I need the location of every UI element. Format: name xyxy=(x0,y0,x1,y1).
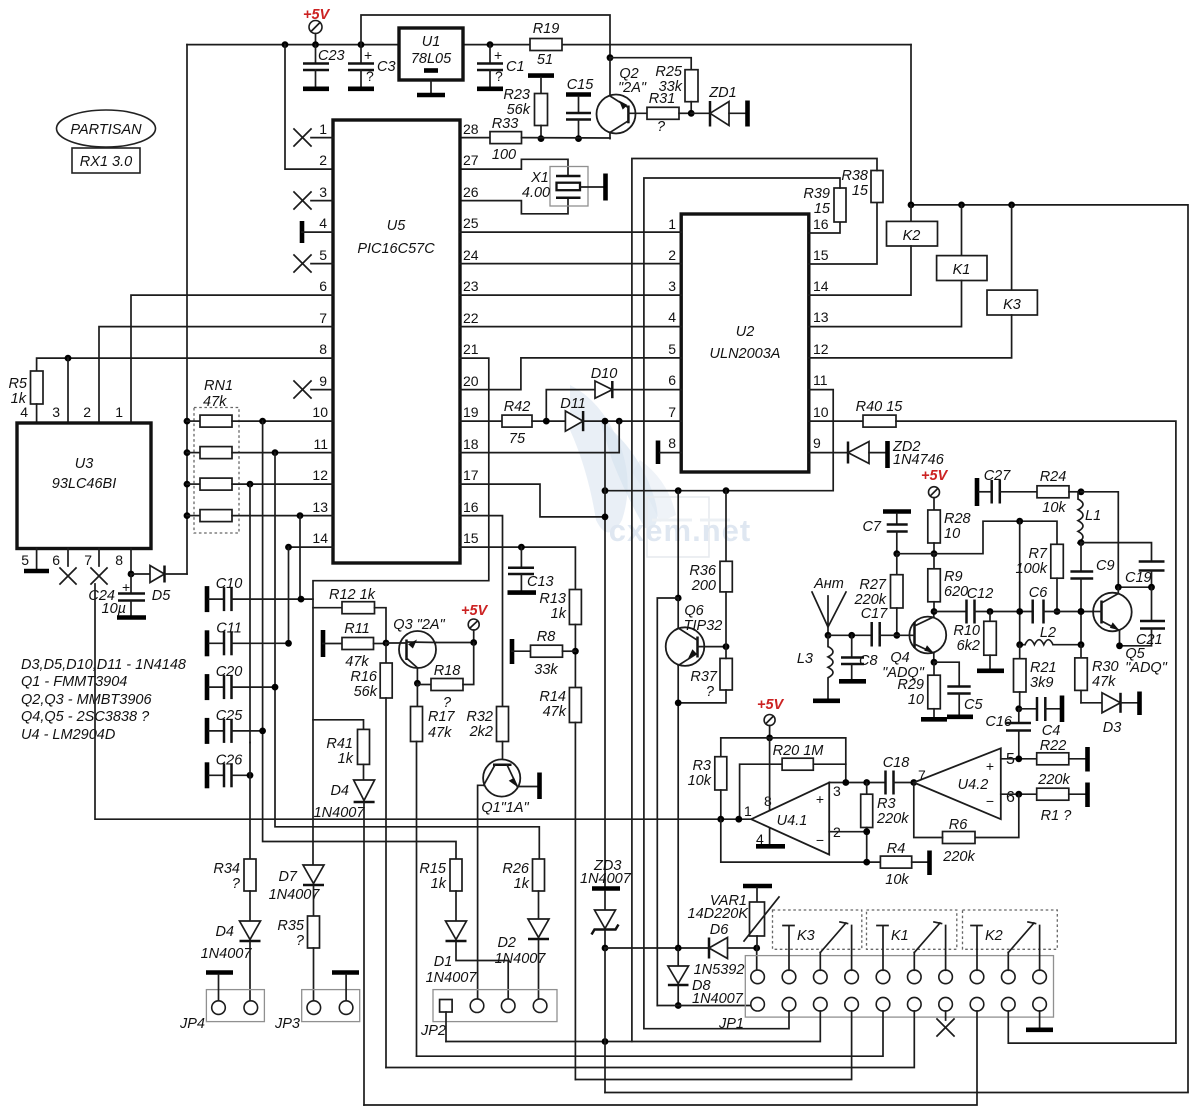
diode D7 xyxy=(303,865,324,884)
node dots on rail xyxy=(282,41,289,48)
connector JP1 xyxy=(745,956,1053,1018)
svg-text:C1: C1 xyxy=(506,59,525,75)
svg-text:9: 9 xyxy=(319,373,327,389)
zener ZD2 xyxy=(809,452,848,454)
svg-text:C8: C8 xyxy=(859,653,878,669)
svg-text:R40 15: R40 15 xyxy=(856,399,904,415)
svg-text:1k: 1k xyxy=(431,876,447,892)
svg-text:R42: R42 xyxy=(504,399,531,415)
svg-text:1k: 1k xyxy=(514,876,530,892)
svg-text:1: 1 xyxy=(668,216,676,232)
capacitor C23 xyxy=(315,45,317,63)
svg-text:?: ? xyxy=(366,68,374,84)
K switch dashed boxes xyxy=(773,910,862,949)
U5 unused pin X marks 1,3,5,9 xyxy=(294,129,333,398)
svg-text:L1: L1 xyxy=(1085,508,1101,524)
U5 right pin labels xyxy=(463,121,479,546)
svg-text:1k: 1k xyxy=(338,751,354,767)
PARTISAN logo xyxy=(57,110,156,147)
svg-text:10k: 10k xyxy=(1042,500,1066,516)
svg-text:D11: D11 xyxy=(560,396,586,412)
svg-text:+: + xyxy=(816,791,824,807)
svg-text:C25: C25 xyxy=(216,708,244,724)
Q5 xyxy=(1093,593,1132,632)
svg-text:R3: R3 xyxy=(877,796,896,812)
R9 xyxy=(933,554,935,569)
svg-text:Q4,Q5 - 2SC3838 ?: Q4,Q5 - 2SC3838 ? xyxy=(21,709,150,725)
svg-text:C18: C18 xyxy=(883,755,910,771)
svg-text:3: 3 xyxy=(668,278,676,294)
svg-text:6: 6 xyxy=(319,278,327,294)
svg-text:22: 22 xyxy=(463,310,479,326)
svg-text:−: − xyxy=(986,793,994,809)
svg-text:21: 21 xyxy=(463,341,479,357)
resistor R35 xyxy=(308,916,320,948)
svg-text:R1 ?: R1 ? xyxy=(1041,808,1073,824)
connector JP4 xyxy=(206,990,264,1022)
svg-text:51: 51 xyxy=(537,52,553,68)
R30 xyxy=(1080,645,1082,658)
svg-text:K3: K3 xyxy=(1003,297,1021,313)
svg-text:18: 18 xyxy=(463,436,479,452)
svg-text:7: 7 xyxy=(84,552,92,568)
svg-text:Q3 "2A": Q3 "2A" xyxy=(393,617,445,633)
microcontroller U5 PIC16C57C xyxy=(333,120,460,563)
svg-text:20: 20 xyxy=(463,373,479,389)
svg-text:5: 5 xyxy=(319,247,327,263)
svg-text:1: 1 xyxy=(319,121,327,137)
svg-text:R8: R8 xyxy=(537,629,556,645)
svg-text:7: 7 xyxy=(668,404,676,420)
svg-text:D3: D3 xyxy=(1103,720,1122,736)
C21 xyxy=(1151,587,1153,620)
svg-text:47k: 47k xyxy=(345,654,369,670)
C12 row xyxy=(934,611,967,613)
-in row / R3 220k xyxy=(829,831,867,833)
svg-text:R41: R41 xyxy=(326,736,353,752)
resistor R11 xyxy=(321,630,326,657)
connector JP3 xyxy=(302,990,360,1022)
svg-text:C27: C27 xyxy=(984,468,1012,484)
svg-text:R14: R14 xyxy=(539,689,566,705)
svg-text:R7: R7 xyxy=(1028,546,1047,562)
U5 pin4 terminal bar xyxy=(300,221,305,243)
C16 C4 node xyxy=(1018,709,1020,723)
resistor R17 xyxy=(416,683,418,706)
svg-text:28: 28 xyxy=(463,121,479,137)
svg-text:R31: R31 xyxy=(649,91,676,107)
diode D5 xyxy=(131,573,150,575)
svg-text:+5V: +5V xyxy=(461,603,489,619)
svg-text:4: 4 xyxy=(20,404,28,420)
resistor R14 xyxy=(569,688,581,723)
svg-text:R16: R16 xyxy=(350,669,378,685)
svg-text:R35: R35 xyxy=(277,918,305,934)
opamp U4.1 xyxy=(751,783,829,855)
svg-text:R39: R39 xyxy=(803,186,830,202)
svg-text:56k: 56k xyxy=(354,684,378,700)
resistor R8 xyxy=(510,639,515,664)
svg-text:JP4: JP4 xyxy=(179,1016,205,1032)
R29 xyxy=(933,662,935,675)
main +5V rail y44.6 xyxy=(187,44,911,46)
svg-text:12: 12 xyxy=(813,341,829,357)
svg-text:1N5392: 1N5392 xyxy=(694,962,745,978)
R40 to right frame xyxy=(809,420,863,422)
svg-text:C6: C6 xyxy=(1029,585,1048,601)
svg-text:1: 1 xyxy=(744,803,752,819)
U5 left pin labels xyxy=(312,121,328,546)
svg-text:24: 24 xyxy=(463,247,479,263)
svg-text:R20 1M: R20 1M xyxy=(773,743,825,759)
svg-text:4: 4 xyxy=(319,215,327,231)
capacitor C3 xyxy=(360,45,362,63)
svg-text:K1: K1 xyxy=(953,262,971,278)
svg-text:8: 8 xyxy=(319,341,327,357)
U5 pin8 wire / R5 xyxy=(37,358,333,371)
svg-text:6k2: 6k2 xyxy=(957,638,980,654)
svg-text:1N4007: 1N4007 xyxy=(269,887,321,903)
svg-text:D1: D1 xyxy=(434,954,453,970)
pin17 jog route xyxy=(460,484,605,517)
svg-text:R29: R29 xyxy=(897,677,924,693)
wire relay supply row xyxy=(911,205,1188,1092)
svg-text:1N4007: 1N4007 xyxy=(426,970,478,986)
svg-text:2: 2 xyxy=(83,404,91,420)
resistor R31 xyxy=(647,107,679,119)
svg-text:11: 11 xyxy=(313,436,328,452)
svg-text:L2: L2 xyxy=(1040,625,1056,641)
svg-text:C12: C12 xyxy=(967,586,994,602)
svg-text:5: 5 xyxy=(21,552,29,568)
svg-text:R34: R34 xyxy=(213,861,240,877)
svg-text:U1: U1 xyxy=(422,34,441,50)
svg-text:100k: 100k xyxy=(1016,561,1048,577)
R10 xyxy=(989,612,991,622)
svg-text:+: + xyxy=(494,47,502,63)
svg-text:Q1"1A": Q1"1A" xyxy=(481,800,529,816)
svg-text:13: 13 xyxy=(312,499,328,515)
diode D2 xyxy=(528,919,549,938)
svg-text:220k: 220k xyxy=(1037,772,1070,788)
svg-text:15: 15 xyxy=(814,201,831,217)
U2 pin8 terminal xyxy=(656,441,661,465)
svg-text:220k: 220k xyxy=(942,849,975,865)
svg-text:75: 75 xyxy=(509,431,526,447)
svg-text:2: 2 xyxy=(668,247,676,263)
svg-text:4: 4 xyxy=(668,309,676,325)
svg-text:1k: 1k xyxy=(551,606,567,622)
svg-text:D4: D4 xyxy=(330,783,349,799)
svg-text:14: 14 xyxy=(312,530,328,546)
Q6 emitter down xyxy=(677,666,679,949)
svg-text:33k: 33k xyxy=(534,662,558,678)
left frame vertical from rail xyxy=(186,45,188,574)
svg-text:TIP32: TIP32 xyxy=(684,618,723,634)
net row 948 xyxy=(605,947,757,949)
Q5 collector row xyxy=(1118,586,1151,588)
C8 xyxy=(828,634,872,636)
U2 pin11 wire to Q6/R36 net xyxy=(605,390,833,491)
svg-text:?: ? xyxy=(706,684,715,700)
svg-text:16: 16 xyxy=(813,216,829,232)
svg-text:10: 10 xyxy=(908,692,924,708)
svg-text:U4.2: U4.2 xyxy=(958,777,989,793)
svg-text:K2: K2 xyxy=(985,928,1003,944)
svg-text:R23: R23 xyxy=(503,87,530,103)
svg-text:JP2: JP2 xyxy=(420,1023,446,1039)
svg-text:R5: R5 xyxy=(8,376,27,392)
svg-text:10k: 10k xyxy=(688,773,712,789)
svg-text:U2: U2 xyxy=(736,324,755,340)
D8 xyxy=(677,948,679,966)
svg-text:10: 10 xyxy=(944,526,960,542)
svg-text:27: 27 xyxy=(463,152,479,168)
svg-text:C20: C20 xyxy=(216,664,243,680)
svg-text:C16: C16 xyxy=(985,714,1013,730)
svg-text:cxem.net: cxem.net xyxy=(609,513,751,548)
svg-text:100: 100 xyxy=(492,147,516,163)
R27 xyxy=(896,554,898,575)
relay coil K1 xyxy=(961,205,963,256)
svg-text:R22: R22 xyxy=(1040,738,1067,754)
y553.7 wire to R7 xyxy=(897,521,1057,554)
svg-text:R36: R36 xyxy=(689,563,717,579)
resistor R23 xyxy=(528,73,554,78)
D3 xyxy=(1081,702,1102,704)
K3 switch xyxy=(783,926,794,971)
resistor R33 pin28 wire xyxy=(460,137,490,139)
svg-text:C23: C23 xyxy=(318,48,345,64)
svg-text:?: ? xyxy=(232,876,241,892)
pin5 row R22 xyxy=(1001,758,1037,760)
svg-text:3k9: 3k9 xyxy=(1030,675,1053,691)
svg-text:15: 15 xyxy=(813,247,829,263)
U5 pin6 pin7 wires to U3 xyxy=(131,295,333,423)
ZD3 net vertical xyxy=(604,421,606,886)
wire to R25 xyxy=(610,58,691,70)
svg-text:10: 10 xyxy=(813,404,829,420)
svg-text:RX1 3.0: RX1 3.0 xyxy=(80,154,132,170)
capacitor C24 xyxy=(130,574,132,593)
svg-text:12: 12 xyxy=(312,467,328,483)
R37 xyxy=(720,658,732,690)
wires U5 pin25-22 to U2 pins1-4 xyxy=(460,231,681,233)
svg-text:3: 3 xyxy=(319,184,327,200)
transistor Q1 xyxy=(483,759,520,796)
svg-text:R19: R19 xyxy=(533,21,560,37)
svg-text:620: 620 xyxy=(944,584,968,600)
R4 row xyxy=(721,819,881,862)
svg-text:16: 16 xyxy=(463,499,479,515)
svg-text:R6: R6 xyxy=(949,817,968,833)
svg-text:ULN2003A: ULN2003A xyxy=(710,346,781,362)
svg-text:D10: D10 xyxy=(591,366,618,382)
EEPROM U3 93LC46BI xyxy=(17,423,151,549)
svg-text:D5: D5 xyxy=(152,588,171,604)
svg-text:R11: R11 xyxy=(344,621,370,637)
svg-text:3: 3 xyxy=(833,783,841,799)
bus verticals pins 10-14 to caps xyxy=(259,418,266,425)
wire rail to pin2 xyxy=(285,45,333,170)
svg-text:JP1: JP1 xyxy=(718,1016,744,1032)
watermark swoosh xyxy=(570,385,751,557)
svg-text:U5: U5 xyxy=(387,218,406,234)
svg-text:93LC46BI: 93LC46BI xyxy=(52,476,117,492)
svg-text:R24: R24 xyxy=(1040,469,1067,485)
svg-text:C19: C19 xyxy=(1125,570,1152,586)
svg-text:47k: 47k xyxy=(428,725,452,741)
resistor R15 xyxy=(450,859,462,891)
svg-text:220k: 220k xyxy=(876,811,909,827)
svg-text:?: ? xyxy=(657,119,666,135)
svg-text:1: 1 xyxy=(115,404,123,420)
wire Q1 collector to JP2 xyxy=(478,785,484,999)
svg-text:8: 8 xyxy=(115,552,123,568)
svg-text:11: 11 xyxy=(813,372,828,388)
resistor R38 xyxy=(809,203,877,265)
R6 feedback xyxy=(975,794,1019,837)
transistor Q3 xyxy=(399,631,436,668)
svg-text:+: + xyxy=(364,47,372,63)
svg-text:7: 7 xyxy=(319,310,327,326)
diode D10 to U2 pin6 xyxy=(546,390,595,422)
node dot Q2 feed xyxy=(607,54,614,61)
svg-text:47k: 47k xyxy=(203,394,227,410)
svg-text:R26: R26 xyxy=(502,861,530,877)
Q6 TIP32 block xyxy=(677,491,679,598)
svg-text:R18: R18 xyxy=(434,663,461,679)
svg-text:15: 15 xyxy=(463,530,479,546)
diode D4 xyxy=(354,780,375,801)
svg-text:R33: R33 xyxy=(492,116,519,132)
svg-text:26: 26 xyxy=(463,184,479,200)
svg-text:D2: D2 xyxy=(497,935,516,951)
svg-text:19: 19 xyxy=(463,404,479,420)
svg-text:4.00: 4.00 xyxy=(522,185,550,201)
svg-text:6: 6 xyxy=(668,372,676,388)
svg-text:−: − xyxy=(816,832,824,848)
svg-text:+5V: +5V xyxy=(921,468,949,484)
svg-text:R28: R28 xyxy=(944,511,971,527)
bottom rails xyxy=(644,1011,789,1029)
svg-text:C9: C9 xyxy=(1096,558,1115,574)
svg-text:R27: R27 xyxy=(859,577,887,593)
resistor R18 xyxy=(414,680,421,687)
bypass wire y15 from C3 node over U1 xyxy=(361,15,610,58)
svg-text:Q1 - FMMT3904: Q1 - FMMT3904 xyxy=(21,674,127,690)
svg-text:200: 200 xyxy=(691,578,716,594)
resistor R16 xyxy=(385,643,387,663)
svg-text:"2A": "2A" xyxy=(618,80,647,96)
svg-text:U4.1: U4.1 xyxy=(777,813,808,829)
svg-text:C15: C15 xyxy=(567,77,595,93)
svg-text:8: 8 xyxy=(764,793,772,809)
resistor network RN1 xyxy=(194,408,239,534)
crystal X1 circuit xyxy=(460,159,568,176)
pin16 to R32 xyxy=(460,516,503,707)
zener ZD1 xyxy=(691,112,710,114)
svg-text:?: ? xyxy=(495,68,503,84)
R7 xyxy=(1051,544,1064,578)
resistor R39 xyxy=(809,222,840,233)
+in row xyxy=(829,782,884,784)
svg-text:3: 3 xyxy=(52,404,60,420)
svg-text:+: + xyxy=(986,758,994,774)
R21 xyxy=(1019,645,1021,659)
svg-text:10: 10 xyxy=(312,404,328,420)
svg-text:R10: R10 xyxy=(953,623,980,639)
RX1 3.0 box xyxy=(72,148,140,173)
svg-text:Q4: Q4 xyxy=(890,650,909,666)
X mark under pin7 xyxy=(937,1011,954,1036)
svg-text:R4: R4 xyxy=(887,841,906,857)
svg-text:1N4007: 1N4007 xyxy=(580,871,632,887)
svg-text:D6: D6 xyxy=(710,922,729,938)
svg-text:RN1: RN1 xyxy=(204,378,233,394)
relay coil K2 xyxy=(910,205,912,222)
svg-text:1N4007: 1N4007 xyxy=(201,946,253,962)
R3 10k xyxy=(715,757,727,790)
svg-text:15: 15 xyxy=(852,183,869,199)
svg-text:5: 5 xyxy=(668,341,676,357)
svg-text:47k: 47k xyxy=(1092,674,1116,690)
svg-text:R13: R13 xyxy=(539,591,566,607)
pin15 wire and C13 xyxy=(460,547,575,589)
svg-text:D4: D4 xyxy=(215,924,234,940)
svg-text:9: 9 xyxy=(813,435,821,451)
svg-text:1N4007: 1N4007 xyxy=(692,991,744,1007)
svg-text:R12 1k: R12 1k xyxy=(329,587,376,603)
Q4 xyxy=(909,617,946,654)
pin21 long route xyxy=(313,358,489,865)
K2 switch xyxy=(971,926,982,971)
diode D1 xyxy=(446,921,467,940)
resistor R13 xyxy=(569,590,581,625)
svg-text:Q6: Q6 xyxy=(684,603,704,619)
svg-text:U3: U3 xyxy=(75,456,94,472)
svg-text:10k: 10k xyxy=(885,872,909,888)
R28 xyxy=(928,510,941,543)
pin20 jog to U2 pin5 xyxy=(460,358,681,390)
svg-text:K1: K1 xyxy=(891,928,909,944)
pin6 row R1 xyxy=(1001,793,1037,795)
voltage regulator U1 78L05 xyxy=(399,28,463,80)
svg-text:?: ? xyxy=(296,933,305,949)
svg-text:C17: C17 xyxy=(861,606,889,622)
capacitor C1 xyxy=(489,45,491,63)
svg-text:6: 6 xyxy=(52,552,60,568)
svg-text:U4 - LM2904D: U4 - LM2904D xyxy=(21,727,115,743)
U3 pin8 node xyxy=(130,549,132,575)
svg-text:47k: 47k xyxy=(543,704,567,720)
svg-text:JP3: JP3 xyxy=(274,1016,300,1032)
C19 loop xyxy=(1081,543,1152,561)
svg-text:R25: R25 xyxy=(655,64,683,80)
svg-text:8: 8 xyxy=(668,435,676,451)
svg-text:R9: R9 xyxy=(944,569,963,585)
svg-text:R15: R15 xyxy=(419,861,447,877)
svg-text:C13: C13 xyxy=(527,574,554,590)
svg-text:Ант: Ант xyxy=(813,576,844,592)
svg-text:PIC16C57C: PIC16C57C xyxy=(357,241,435,257)
svg-text:2: 2 xyxy=(319,152,327,168)
svg-text:D3,D5,D10,D11 - 1N4148: D3,D5,D10,D11 - 1N4148 xyxy=(21,657,186,673)
svg-text:78L05: 78L05 xyxy=(411,51,452,67)
driver U2 ULN2003A xyxy=(681,214,809,472)
wire R41 branch xyxy=(313,720,364,730)
svg-text:L3: L3 xyxy=(797,651,813,667)
